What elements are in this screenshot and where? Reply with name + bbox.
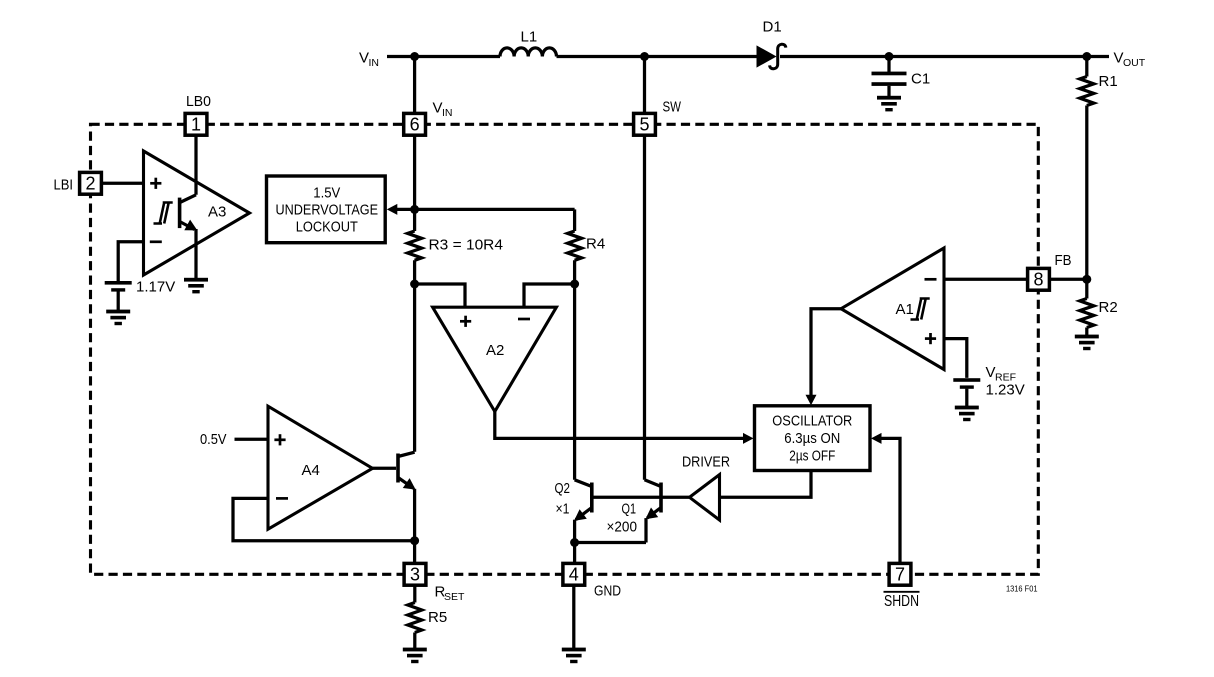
node VIN rail at pin 6 branch: [410, 52, 419, 61]
pin 8 FB: [1028, 268, 1050, 290]
svg-text:LOCKOUT: LOCKOUT: [296, 219, 358, 236]
svg-text:1316 F01: 1316 F01: [1006, 585, 1038, 594]
svg-text:OUT: OUT: [1123, 57, 1146, 69]
wire R4 to A2 - node and Q2 collector: [573, 260, 576, 480]
label A1: [896, 301, 914, 318]
wire pin 2 to A3 + input: [97, 182, 144, 185]
svg-text:IN: IN: [442, 107, 453, 119]
ground below R2: [1075, 335, 1099, 351]
wire VOUT to R1: [1085, 57, 1088, 77]
wire R5 to ground: [413, 633, 416, 649]
net 0.5V label: [200, 431, 227, 448]
svg-text:8: 8: [1033, 270, 1043, 290]
node GND junction: [570, 538, 579, 547]
A1 - input mark: [925, 278, 937, 281]
svg-text:Q2: Q2: [555, 480, 571, 497]
label SW: [663, 99, 682, 116]
resistor R3: [408, 231, 422, 260]
svg-text:4: 4: [569, 565, 579, 585]
ground below 1.17V reference: [106, 310, 130, 326]
note 1316 F01: [1006, 585, 1038, 594]
svg-text:5: 5: [639, 115, 649, 135]
ground below C1: [877, 96, 901, 112]
svg-text:SHDN: SHDN: [884, 593, 919, 610]
IC boundary dashed box: [91, 124, 1039, 574]
label D1: [763, 19, 782, 36]
wire pin 6 VIN down to R3: [413, 57, 416, 232]
svg-text:1.23V: 1.23V: [986, 382, 1025, 399]
label R2: [1099, 299, 1118, 316]
svg-text:R1: R1: [1099, 73, 1118, 90]
label R1: [1099, 73, 1118, 90]
transistor Q1: [645, 480, 662, 543]
label LB0: [186, 93, 211, 110]
wire pin 4 to ground: [572, 580, 575, 648]
svg-text:R2: R2: [1099, 299, 1118, 316]
svg-text:7: 7: [895, 565, 905, 585]
label A4: [302, 462, 320, 479]
resistor R4: [568, 231, 582, 260]
pin 2 LBI: [80, 172, 102, 194]
label RSET: [435, 584, 466, 603]
svg-text:R5: R5: [428, 609, 447, 626]
svg-text:1: 1: [191, 115, 201, 135]
svg-text:1.17V: 1.17V: [136, 279, 175, 296]
wire R3 to A2 + node and A4 collector: [413, 260, 416, 452]
wire A2 + input bend: [415, 284, 465, 307]
A1 hysteresis mark: [911, 299, 930, 320]
label x1: [556, 501, 570, 518]
node RSET junction: [410, 536, 419, 545]
svg-text:D1: D1: [763, 19, 782, 36]
svg-text:IN: IN: [369, 57, 380, 69]
label R4: [586, 236, 605, 253]
node A2 + input junction: [410, 280, 419, 289]
A4 + input mark: [274, 434, 285, 445]
wire VIN rail left: [387, 55, 500, 58]
wire 1.17V battery to ground: [117, 291, 120, 310]
label SHDN with overline: [884, 592, 920, 610]
svg-text:0.5V: 0.5V: [200, 431, 227, 448]
svg-text:1.5V: 1.5V: [313, 184, 340, 201]
svg-text:×200: ×200: [607, 519, 638, 536]
wire R2 to ground: [1085, 328, 1088, 336]
svg-text:R4: R4: [586, 236, 605, 253]
svg-text:A4: A4: [302, 462, 320, 479]
svg-text:SET: SET: [444, 591, 465, 603]
wire VREF battery to ground: [965, 389, 968, 406]
A4 - input mark: [276, 497, 288, 500]
label A2: [486, 342, 504, 359]
svg-text:6: 6: [410, 115, 420, 135]
label VREF: [986, 364, 1017, 383]
A2 - input mark: [518, 318, 530, 321]
node FB divider: [1082, 275, 1091, 284]
wire pin 3 to R5: [413, 580, 416, 603]
wire SW pin 5 to Q1 collector: [643, 57, 646, 480]
transistor at A4 output: [373, 452, 416, 541]
svg-text:3: 3: [410, 565, 420, 585]
wire FB node to pin 8 and comparator A1: [944, 278, 1087, 281]
svg-text:GND: GND: [594, 583, 621, 600]
svg-text:A1: A1: [896, 301, 914, 318]
ground below VREF: [955, 406, 979, 422]
wire 0.5V to A4 + input: [235, 438, 269, 441]
label R3 = 10R4: [429, 237, 504, 254]
ground below pin 4: [562, 648, 586, 664]
reference 1.17V battery: [105, 281, 132, 292]
wire pin 1 to A3 transistor collector: [194, 130, 197, 195]
svg-text:SW: SW: [663, 99, 682, 116]
svg-text:V: V: [433, 100, 443, 117]
node C1 top: [885, 52, 894, 61]
resistor R2: [1080, 299, 1094, 328]
pin 6 VIN: [404, 113, 426, 135]
node A2 - input junction: [570, 280, 579, 289]
wire pin 7 to oscillator with arrow: [871, 433, 900, 569]
svg-text:A3: A3: [208, 204, 226, 221]
pin 3 RSET: [404, 563, 426, 585]
transistor inside A3 (open-collector output): [180, 195, 198, 278]
svg-text:DRIVER: DRIVER: [682, 454, 730, 471]
buffer DRIVER triangle: [690, 475, 720, 520]
label Q2: [555, 480, 571, 497]
svg-text:A2: A2: [486, 342, 504, 359]
block OSCILLATOR: [755, 406, 871, 471]
label Q1: [622, 501, 637, 518]
wire Q1 emitter to GND node: [575, 541, 646, 544]
svg-text:2: 2: [85, 174, 95, 194]
transistor Q2: [574, 480, 592, 543]
svg-text:LBI: LBI: [54, 177, 74, 194]
pin 7 SHDN: [889, 563, 911, 585]
diode D1: [757, 44, 786, 69]
wire A1 output to oscillator with arrow: [806, 309, 842, 406]
svg-text:UNDERVOLTAGE: UNDERVOLTAGE: [276, 201, 379, 218]
A1 + input mark: [925, 333, 936, 344]
wire A1 + input to VREF: [944, 339, 967, 378]
wire A3 - input to 1.17V reference: [118, 242, 143, 282]
svg-text:V: V: [359, 50, 369, 67]
svg-text:V: V: [1114, 50, 1124, 67]
label 1.23V: [986, 382, 1025, 399]
op-amp A1 triangle: [841, 248, 944, 370]
op-amp A2 triangle: [433, 307, 557, 411]
op-amp A4 triangle: [268, 406, 373, 529]
svg-text:Q1: Q1: [622, 501, 637, 518]
net VIN label: [359, 50, 379, 69]
node VIN sense split: [410, 205, 419, 214]
block 1.5V undervoltage lockout: [267, 176, 386, 243]
A3 - input mark: [150, 240, 162, 243]
pin 1 LB0: [185, 113, 207, 135]
resistor R1: [1080, 77, 1094, 106]
label DRIVER: [682, 454, 730, 471]
wire VIN sense to UVLO with arrow: [387, 204, 415, 215]
A3 + input mark: [150, 178, 161, 189]
wire junction to pin 3: [413, 541, 416, 569]
label A3: [208, 204, 226, 221]
wire Q2 Q1 bases to driver: [592, 496, 689, 499]
label pin 6 VIN: [433, 100, 453, 119]
node VOUT / R1 top: [1082, 52, 1091, 61]
label FB: [1055, 252, 1072, 269]
wire down to R4: [573, 209, 576, 231]
reference VREF battery: [953, 378, 980, 389]
wire A2 output to oscillator with arrow: [495, 412, 754, 444]
label LBI: [54, 177, 74, 194]
wire A4 feedback from emitter to - input: [233, 498, 415, 540]
label 1.17V: [136, 279, 175, 296]
wire R1 to FB node: [1085, 106, 1088, 280]
node SW rail at pin 5 branch: [640, 52, 649, 61]
net VOUT label: [1114, 50, 1146, 69]
capacitor C1: [872, 57, 907, 97]
label GND: [594, 583, 621, 600]
pin 4 GND: [563, 563, 585, 585]
wire D1 to VOUT: [780, 55, 1109, 58]
svg-text:LB0: LB0: [186, 93, 211, 110]
A3 hysteresis mark: [154, 203, 173, 224]
svg-text:FB: FB: [1055, 252, 1072, 269]
ground below A3 transistor emitter: [184, 278, 208, 294]
label C1: [911, 71, 930, 88]
svg-text:R3 = 10R4: R3 = 10R4: [429, 237, 504, 254]
svg-text:6.3µs ON: 6.3µs ON: [784, 430, 840, 447]
ground below R5: [403, 648, 427, 664]
label R5: [428, 609, 447, 626]
svg-text:C1: C1: [911, 71, 930, 88]
svg-text:V: V: [986, 364, 996, 381]
wire GND node to pin 4: [573, 543, 576, 570]
wire R3 top to R4 top: [415, 208, 575, 211]
wire A2 - input bend: [524, 284, 575, 307]
label x200: [607, 519, 638, 536]
pin 5 SW: [634, 113, 656, 135]
svg-text:L1: L1: [521, 29, 538, 46]
svg-text:×1: ×1: [556, 501, 570, 518]
label L1: [521, 29, 538, 46]
wire L1 to D1: [557, 55, 759, 58]
A2 + input mark: [460, 316, 471, 327]
resistor R5: [408, 603, 422, 633]
wire FB node to R2: [1085, 279, 1088, 298]
op-amp A3 triangle: [144, 151, 250, 275]
inductor L1: [500, 48, 556, 57]
svg-text:OSCILLATOR: OSCILLATOR: [772, 413, 852, 430]
svg-text:2µs OFF: 2µs OFF: [789, 448, 835, 465]
wire oscillator output to driver: [720, 471, 812, 498]
